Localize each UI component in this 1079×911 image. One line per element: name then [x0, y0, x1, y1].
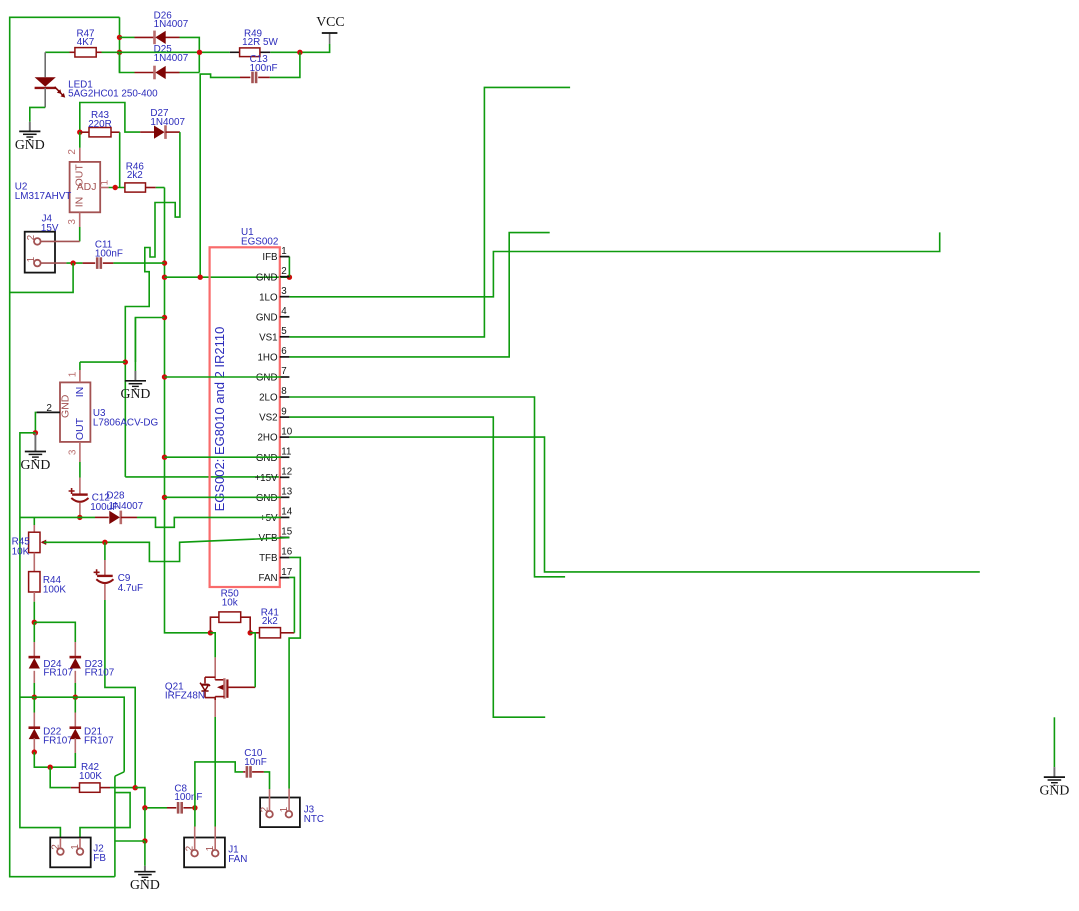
- diode D23 body: [70, 656, 82, 659]
- pin U3.2 GND: [37, 411, 60, 413]
- wire 1HO net: [289, 233, 549, 357]
- wire C13 left jog: [200, 74, 240, 277]
- svg-text:GND: GND: [130, 877, 160, 892]
- svg-text:14: 14: [281, 507, 292, 518]
- svg-text:12: 12: [281, 467, 292, 478]
- resistor R46: [125, 183, 146, 192]
- svg-text:100nF: 100nF: [174, 792, 202, 803]
- svg-text:D28: D28: [106, 490, 125, 501]
- svg-text:1: 1: [99, 179, 110, 185]
- wire VS1 net: [289, 87, 570, 337]
- wire Q21 source: [214, 700, 216, 717]
- node C13 column junction: [198, 275, 203, 280]
- capacitor C13 plates: [251, 72, 254, 84]
- pin J4.1: [41, 262, 67, 264]
- svg-text:GND: GND: [120, 386, 150, 401]
- svg-text:6: 6: [281, 346, 287, 357]
- pin U1.16 TFB: [280, 557, 290, 559]
- wire node to C8: [135, 788, 167, 808]
- diode D24 body: [29, 656, 41, 659]
- wire J4.1 to left rail: [10, 263, 73, 292]
- svg-text:GND: GND: [256, 272, 278, 283]
- wire drain from R50 node: [210, 633, 215, 658]
- wire +15V row to U1 pin 12: [125, 476, 281, 478]
- svg-text:100nF: 100nF: [250, 63, 278, 74]
- wire R41 to FAN pin: [289, 577, 294, 632]
- svg-text:2HO: 2HO: [257, 433, 278, 444]
- pin U1.9 VS2: [280, 416, 290, 418]
- node R50 right junction: [248, 630, 253, 635]
- potentiometer R45: [33, 525, 35, 533]
- wire U3 GND to bottom rail: [20, 433, 61, 838]
- pin U1.6 1HO: [280, 356, 290, 358]
- wire GND11 row: [165, 456, 282, 458]
- wire D28 to +5V pin jog: [137, 517, 281, 527]
- svg-text:2: 2: [281, 266, 286, 277]
- wire U3 IN row: [80, 361, 125, 363]
- node R42 tap junction: [48, 765, 53, 770]
- diode D28 body: [109, 511, 120, 524]
- pin J2.2: [59, 838, 61, 848]
- connector J3: [260, 798, 300, 828]
- svg-text:10K: 10K: [12, 546, 30, 557]
- svg-text:OUT: OUT: [74, 417, 86, 440]
- transistor Q21 IRFZ48N: [214, 657, 216, 679]
- node R42-C8-C9 junction: [133, 785, 138, 790]
- wire R44 to diode row: [33, 602, 35, 623]
- diode D21: [74, 697, 76, 712]
- node D24-D22 junction: [32, 695, 37, 700]
- wire FB mid row: [20, 697, 124, 772]
- svg-text:NTC: NTC: [304, 814, 324, 825]
- wire gate from R41 node: [250, 633, 255, 688]
- svg-text:100K: 100K: [79, 771, 102, 782]
- diode D23: [74, 642, 76, 657]
- wire source down to J1: [214, 717, 216, 827]
- diode D25: [153, 66, 156, 80]
- wire 1LO net: [289, 232, 939, 296]
- IC U1 EGS002 body: [210, 247, 280, 587]
- svg-text:9: 9: [281, 406, 286, 417]
- potentiometer R45 body: [29, 532, 40, 552]
- wire C9 bottom to R42 node: [105, 600, 135, 788]
- connector J1: [184, 838, 225, 868]
- svg-text:11: 11: [281, 446, 291, 457]
- diode D27: [140, 131, 154, 133]
- resistor R41: [250, 632, 259, 634]
- pin U1.10 2HO: [280, 436, 290, 438]
- node U3 GND junction: [33, 430, 38, 435]
- wire J4.1 to C11: [66, 262, 82, 264]
- diode D28: [95, 516, 109, 518]
- svg-text:GND: GND: [256, 453, 278, 464]
- wire OUT dot to pin2: [79, 132, 81, 148]
- diode D24: [33, 642, 35, 657]
- wire C8 to J1: [192, 807, 195, 809]
- wire 2LO net: [289, 397, 565, 577]
- pin U1.2 GND: [280, 276, 290, 278]
- wire GND row to D28: [20, 516, 95, 518]
- node R44 bottom junction: [32, 620, 37, 625]
- svg-text:1: 1: [281, 246, 286, 257]
- capacitor C12: [79, 478, 81, 495]
- pin U1.4 GND: [280, 316, 290, 318]
- wire GND13 row: [165, 496, 282, 498]
- capacitor C8: [167, 807, 176, 809]
- svg-text:1LO: 1LO: [259, 292, 278, 303]
- svg-text:LM317AHVT: LM317AHVT: [15, 191, 72, 202]
- svg-text:1N4007: 1N4007: [109, 501, 144, 512]
- wire GND7 row: [165, 376, 282, 378]
- svg-text:IRFZ48N: IRFZ48N: [165, 690, 205, 701]
- node D26 left junction: [117, 35, 122, 40]
- svg-text:1: 1: [67, 371, 78, 377]
- resistor R50: [210, 617, 219, 633]
- resistor R44: [33, 553, 35, 572]
- svg-text:TFB: TFB: [259, 553, 278, 564]
- node C9 junction: [102, 540, 107, 545]
- svg-text:3: 3: [67, 219, 78, 225]
- wire D25 row left: [120, 52, 135, 72]
- svg-text:FAN: FAN: [228, 854, 247, 865]
- pin J1.2: [194, 808, 196, 827]
- svg-text:+5V: +5V: [260, 513, 278, 524]
- diode D21 body: [70, 726, 82, 729]
- ground GND (near U1): [134, 318, 136, 372]
- node R43 left junction: [77, 130, 82, 135]
- svg-text:IN: IN: [73, 197, 85, 208]
- svg-text:GND: GND: [256, 373, 278, 384]
- pin U1.14 +5V: [280, 516, 290, 518]
- pin U1.12 +15V: [280, 476, 290, 478]
- svg-text:2: 2: [50, 844, 61, 850]
- wire VFB net: [44, 538, 289, 562]
- svg-text:220R: 220R: [88, 119, 112, 130]
- node GND7 row junction: [162, 374, 167, 379]
- svg-text:3: 3: [67, 449, 78, 455]
- wire FB slash jog: [115, 772, 124, 776]
- wire D24 bottom: [33, 683, 35, 697]
- node C8 left junction: [142, 805, 147, 810]
- resistor R43: [80, 131, 89, 133]
- pin U1.17 FAN: [280, 577, 290, 579]
- svg-text:L7806ACV-DG: L7806ACV-DG: [93, 418, 158, 429]
- wire D26 row: [120, 36, 135, 38]
- pin U1.15 VFB: [280, 536, 290, 538]
- pin J4.2: [41, 240, 80, 242]
- resistor R47: [70, 51, 75, 53]
- svg-text:13: 13: [281, 487, 292, 498]
- wire LED to R47: [45, 51, 69, 53]
- svg-text:17: 17: [281, 567, 292, 578]
- node ADJ junction: [113, 185, 118, 190]
- resistor R44 body: [29, 572, 40, 592]
- capacitor C10 plates: [246, 766, 249, 778]
- svg-text:12R 5W: 12R 5W: [242, 37, 278, 48]
- LED LED1: [44, 52, 46, 77]
- node D22 bottom junction: [32, 749, 37, 754]
- wire GND row to border: [115, 840, 145, 842]
- diode D22: [33, 697, 35, 712]
- svg-text:EGS002: EGS002: [241, 237, 278, 248]
- node VCC rail junction: [197, 50, 202, 55]
- Q21 body-diode loop: [205, 676, 215, 678]
- svg-text:FR107: FR107: [43, 668, 73, 679]
- svg-text:1: 1: [279, 806, 290, 812]
- svg-text:2: 2: [259, 806, 270, 812]
- svg-text:5AG2HC01 250-400: 5AG2HC01 250-400: [68, 88, 158, 99]
- wire GND2 row: [165, 276, 290, 278]
- node U3 IN tap: [123, 359, 128, 364]
- pin U1.13 GND: [280, 496, 290, 498]
- svg-text:3: 3: [281, 286, 287, 297]
- svg-text:GND: GND: [20, 457, 50, 472]
- svg-text:GND: GND: [256, 312, 278, 323]
- ground GND (right): [1053, 717, 1055, 767]
- node C13 right junction: [297, 50, 302, 55]
- wire R49 to VCC: [270, 44, 329, 52]
- diode D22 body: [29, 726, 41, 729]
- pin U2.1 ADJ: [100, 187, 108, 189]
- capacitor C11: [83, 262, 96, 264]
- wire U3 IN to +15V rail: [79, 362, 81, 370]
- wire D23 bottom: [74, 683, 76, 697]
- wire R42 to C8 node: [110, 787, 135, 789]
- svg-text:GND: GND: [256, 493, 278, 504]
- svg-text:4.7uF: 4.7uF: [118, 583, 143, 594]
- svg-text:1: 1: [26, 256, 37, 262]
- node GND11 row junction: [162, 455, 167, 460]
- svg-text:VS1: VS1: [259, 332, 278, 343]
- svg-text:8: 8: [281, 386, 287, 397]
- wire 2HO net: [289, 437, 979, 572]
- wire D22-D21 bottom row: [34, 752, 75, 767]
- svg-text:2: 2: [67, 149, 78, 155]
- svg-text:4: 4: [281, 306, 287, 317]
- wire VS2 net: [289, 417, 545, 717]
- svg-text:GND: GND: [15, 137, 45, 152]
- wire C10 to J3.2: [264, 772, 270, 789]
- node R50 left junction: [208, 630, 213, 635]
- resistor R42: [71, 787, 80, 789]
- svg-text:1: 1: [70, 844, 81, 850]
- svg-text:5: 5: [281, 326, 287, 337]
- capacitor C11 plates: [96, 257, 99, 269]
- node IFB-GND junction: [287, 275, 292, 280]
- node GND bottom junction: [142, 838, 147, 843]
- LED1 arrows: [55, 87, 64, 96]
- node C8 right junction: [192, 805, 197, 810]
- regulator U2 LM317AHVT: [70, 162, 101, 212]
- capacitor C12 plates: [72, 493, 88, 495]
- svg-text:1N4007: 1N4007: [154, 19, 189, 30]
- svg-text:2LO: 2LO: [259, 393, 278, 404]
- ground GND (U3): [34, 432, 36, 434]
- svg-text:FAN: FAN: [259, 573, 278, 584]
- wire R46 to GND rail: [156, 187, 165, 189]
- wire IFB to GND jog: [288, 257, 290, 278]
- wire GND drop: [144, 808, 146, 841]
- svg-text:GND: GND: [1039, 783, 1069, 798]
- wire ADJ to R46: [109, 187, 125, 189]
- wire R44 bottom lead: [33, 592, 35, 602]
- node GND2 row left junction: [162, 275, 167, 280]
- wire D25 row right: [180, 72, 200, 74]
- svg-text:1N4007: 1N4007: [154, 53, 189, 64]
- wire C11 to GND rail: [113, 262, 164, 264]
- svg-text:10nF: 10nF: [244, 757, 267, 768]
- svg-text:2k2: 2k2: [127, 170, 143, 181]
- pin J2.1: [79, 838, 81, 848]
- node C12 bottom junction: [77, 515, 82, 520]
- wire D27 hook to +15V rail: [125, 132, 180, 477]
- node GND13 row junction: [162, 495, 167, 500]
- wire C13 right branch: [270, 52, 300, 77]
- svg-text:FR107: FR107: [84, 736, 114, 747]
- svg-text:+15V: +15V: [254, 473, 278, 484]
- svg-text:2: 2: [26, 234, 37, 240]
- wire D26 anode lead: [135, 36, 155, 38]
- svg-text:FR107: FR107: [43, 736, 73, 747]
- svg-text:100K: 100K: [43, 584, 66, 595]
- pin J1.1: [214, 827, 216, 850]
- svg-text:7: 7: [281, 366, 286, 377]
- wire D25 leads: [135, 72, 155, 74]
- wire left border rail: [10, 17, 120, 876]
- ground GND (bottom center): [144, 841, 146, 866]
- pin U1.8 2LO: [280, 396, 290, 398]
- wire R42 tap down: [50, 767, 71, 787]
- pin U3.1 IN: [79, 370, 81, 382]
- wire D26 to right column: [180, 37, 200, 72]
- capacitor C8 plates: [177, 802, 180, 814]
- svg-text:10: 10: [281, 426, 292, 437]
- regulator U3 L7806ACV-DG: [60, 382, 90, 442]
- svg-text:100nF: 100nF: [95, 248, 123, 259]
- connector J2: [50, 838, 90, 868]
- wire FB down border: [114, 776, 116, 877]
- svg-text:15: 15: [281, 527, 292, 538]
- pin U1.11 GND: [280, 456, 290, 458]
- svg-text:1N4007: 1N4007: [150, 117, 185, 128]
- svg-text:FR107: FR107: [85, 668, 115, 679]
- wire U3 GND down: [35, 412, 36, 432]
- wire C10 branch: [195, 762, 243, 808]
- wire R43 to ADJ node: [119, 132, 121, 187]
- svg-text:4K7: 4K7: [77, 37, 95, 48]
- pin U2.3 IN: [79, 212, 81, 227]
- pin U1.7 GND: [280, 376, 290, 378]
- node J4.1 junction: [70, 260, 75, 265]
- wire TFB net: [289, 557, 300, 788]
- svg-text:15V: 15V: [41, 223, 59, 234]
- wire D24 top lead: [33, 622, 35, 642]
- svg-text:16: 16: [281, 547, 292, 558]
- wire GND symbol branch: [135, 318, 164, 363]
- wire R47 to R49: [102, 51, 230, 53]
- svg-text:10k: 10k: [222, 598, 238, 609]
- power VCC: [329, 33, 331, 44]
- pin U1.1 IFB: [280, 256, 290, 258]
- wire R45 top tap: [33, 517, 35, 525]
- pin J3.1: [288, 789, 290, 811]
- capacitor C9: [104, 542, 106, 560]
- svg-text:VS2: VS2: [259, 413, 278, 424]
- diode D27 body: [154, 126, 165, 139]
- wire J2.1 net: [80, 793, 130, 838]
- svg-text:1HO: 1HO: [257, 353, 278, 364]
- connector J4: [25, 232, 55, 273]
- svg-text:VCC: VCC: [316, 14, 344, 29]
- svg-text:FB: FB: [93, 853, 106, 864]
- node GND symbol tap: [162, 315, 167, 320]
- capacitor C13: [258, 76, 270, 78]
- capacitor C9 plates: [97, 575, 113, 577]
- wire D24-D23 top row: [34, 622, 75, 642]
- wire LED to GND: [30, 107, 45, 121]
- node R47-D25 junction: [117, 50, 122, 55]
- pin U1.5 VS1: [280, 336, 290, 338]
- wire U2 OUT loop: [80, 103, 140, 133]
- svg-text:EGS002: EG8010 and 2 IR2110: EGS002: EG8010 and 2 IR2110: [212, 327, 227, 512]
- node C11 junction: [162, 260, 167, 265]
- capacitor C10: [243, 771, 245, 773]
- node D23-D21 junction: [73, 695, 78, 700]
- svg-text:2k2: 2k2: [262, 616, 278, 627]
- svg-text:2: 2: [185, 845, 196, 851]
- svg-text:IFB: IFB: [262, 252, 278, 263]
- wire GND rail vertical: [165, 188, 211, 633]
- pin U3.3 OUT: [79, 442, 81, 462]
- pin J3.2: [269, 789, 271, 811]
- resistor R49: [230, 51, 240, 53]
- wire U3 OUT to C12: [79, 462, 81, 478]
- wire D26-D25 left column: [119, 17, 121, 72]
- svg-text:IN: IN: [74, 387, 86, 398]
- pin U1.3 1LO: [280, 296, 290, 298]
- wire U2 IN to J4.2: [79, 227, 81, 241]
- svg-text:2: 2: [46, 403, 52, 414]
- pin U2.2: [79, 148, 81, 162]
- svg-text:ADJ: ADJ: [77, 181, 97, 193]
- ground GND (LED): [29, 122, 31, 132]
- svg-text:GND: GND: [60, 394, 72, 418]
- diode D26: [153, 31, 156, 45]
- svg-text:1: 1: [205, 845, 216, 851]
